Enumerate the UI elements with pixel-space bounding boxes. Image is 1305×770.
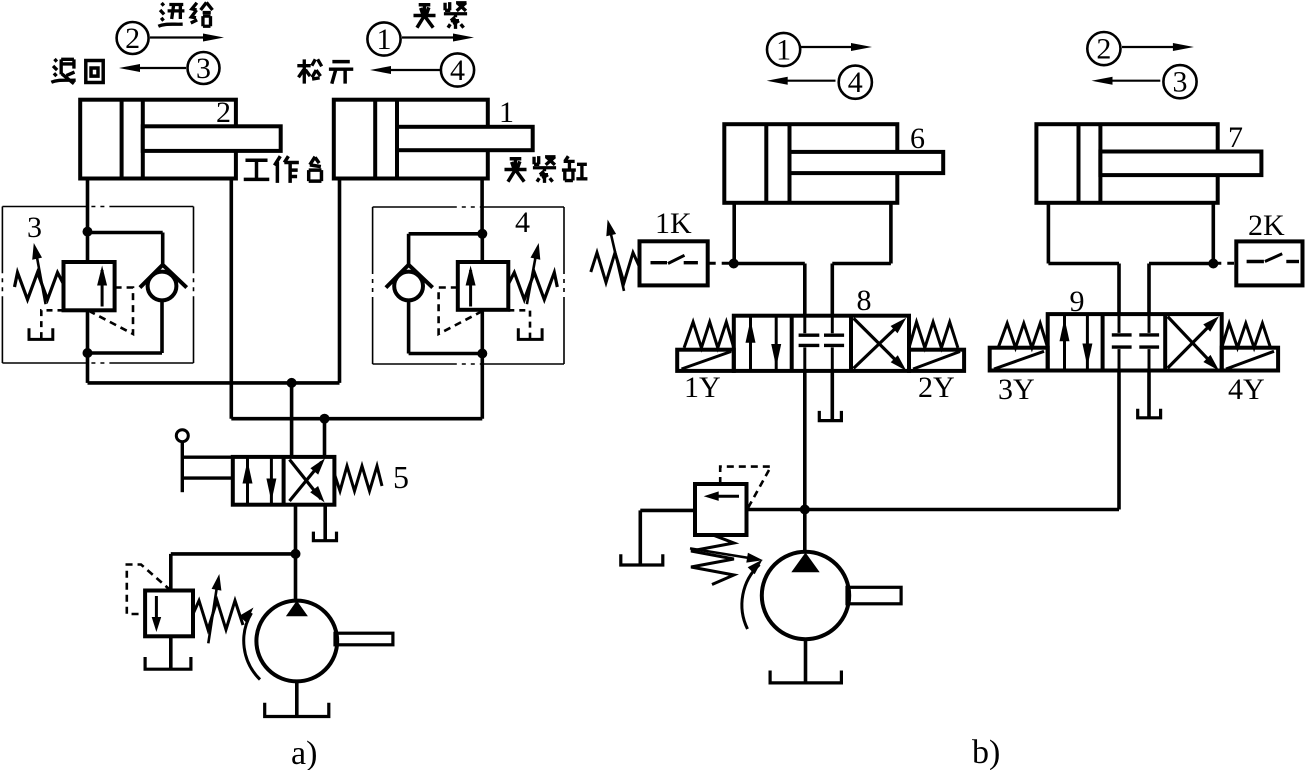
relief valve b spring <box>691 535 734 585</box>
pressure switch 2K link <box>1213 262 1234 265</box>
arrow 3b left <box>1104 80 1160 82</box>
enclosure box valve 4 <box>373 206 564 208</box>
valve 8 tank <box>819 411 841 421</box>
check valve 3 branch top <box>88 231 163 235</box>
pump b shaft <box>847 587 901 604</box>
wire seq4 bottom <box>480 310 484 354</box>
wire supply to valve 9 <box>805 508 1119 512</box>
svg-text:6: 6 <box>910 122 925 155</box>
step circle 3b <box>1163 65 1196 98</box>
svg-text:1: 1 <box>499 96 514 129</box>
arrow release left <box>383 69 441 71</box>
valve 9 left spring <box>998 323 1047 347</box>
svg-text:a): a) <box>291 735 317 770</box>
step circle 1b <box>767 33 800 66</box>
sequence valve 3 body <box>64 262 115 310</box>
junction <box>477 229 487 239</box>
valve 5 tank line <box>323 505 327 541</box>
relief valve b adjust arrow <box>690 548 753 558</box>
wire relief 1 branch <box>171 552 296 556</box>
svg-text:2: 2 <box>125 22 140 55</box>
arrow clamp right <box>402 36 461 38</box>
svg-text:3Y: 3Y <box>998 373 1035 406</box>
solenoid 4Y box <box>1222 348 1278 371</box>
step circle 3 <box>188 52 220 84</box>
solenoid 1Y box <box>677 350 734 371</box>
svg-text:2K: 2K <box>1248 209 1285 242</box>
wire cyl2 cap port down <box>86 179 90 232</box>
pressure switch 1K spring <box>591 253 640 283</box>
enclosure box valve 3 <box>2 206 193 208</box>
relief valve b outlet <box>640 509 695 513</box>
wire cyl7 cap <box>1047 203 1051 264</box>
relief valve b flow arrow <box>709 495 739 498</box>
label 夹紧 (clamp) <box>413 5 435 28</box>
pressure switch 1K adjust arrow <box>610 230 624 291</box>
pressure switch 1K contact <box>651 261 668 264</box>
check valve 4 branch bottom <box>407 300 411 353</box>
svg-text:3: 3 <box>196 52 211 85</box>
drain tank 4 <box>518 328 542 339</box>
svg-text:2: 2 <box>216 96 231 129</box>
svg-text:3: 3 <box>1173 66 1188 99</box>
wire net B to valve <box>323 419 327 457</box>
valve 9 left position arrows <box>1063 315 1066 370</box>
wire net A <box>86 353 90 383</box>
pressure switch 2K box <box>1236 241 1302 285</box>
label 退回 (retract) <box>51 59 75 84</box>
check valve 3 ball <box>148 272 177 301</box>
cylinder 7 <box>1036 124 1261 203</box>
step circle 2 <box>117 22 149 54</box>
junction 1K <box>729 259 739 269</box>
wire supply to relief b <box>747 508 805 512</box>
junction 2K <box>1208 259 1218 269</box>
pump b circle <box>762 552 849 639</box>
sequence valve 3 spring <box>15 273 64 300</box>
pump b tank line <box>804 639 808 683</box>
sequence valve 4 spring <box>508 273 557 300</box>
svg-text:4: 4 <box>848 66 863 99</box>
wire net A to valve <box>290 383 294 457</box>
sequence valve 4 body <box>458 262 509 310</box>
valve 5 spring <box>334 466 382 491</box>
wire valve 8 P <box>803 371 807 553</box>
valve 5 left position arrows <box>246 457 249 505</box>
junction supply <box>800 505 810 515</box>
pressure switch 1K link <box>708 262 731 265</box>
relief valve a tank line <box>169 636 173 669</box>
wire valve5 P to pump <box>294 505 298 601</box>
check valve 3 branch bottom <box>160 300 164 353</box>
step circle 1 <box>367 22 400 55</box>
label 进给 (feed) <box>158 3 184 26</box>
cylinder 2 (worktable cylinder) <box>80 100 281 179</box>
valve 9 tank line <box>1147 371 1151 418</box>
svg-text:2Y: 2Y <box>918 371 955 404</box>
svg-text:1K: 1K <box>655 207 692 240</box>
relief valve a adjust arrow <box>208 583 217 643</box>
drain tank 3 <box>29 328 53 339</box>
wire net B <box>230 179 234 419</box>
svg-text:1Y: 1Y <box>684 371 721 404</box>
junction <box>477 349 487 359</box>
wire cyl7 rod <box>1212 203 1216 264</box>
wire seq3 top <box>86 232 90 262</box>
junction <box>83 348 93 358</box>
arrow 2b right <box>1122 46 1181 48</box>
svg-text:9: 9 <box>1070 285 1085 318</box>
valve 5 body <box>233 457 335 505</box>
sequence valve 3 adjust arrow <box>36 252 46 304</box>
valve 9 tank <box>1138 409 1161 418</box>
valve 5 lever rod <box>181 442 184 493</box>
junction net A <box>287 378 297 388</box>
junction net B <box>320 414 330 424</box>
svg-text:1: 1 <box>776 34 791 67</box>
svg-text:3: 3 <box>27 211 42 244</box>
relief valve a body <box>145 591 193 637</box>
relief valve a flow arrow <box>155 596 158 626</box>
wire seq4 top <box>480 234 484 262</box>
wire cyl1 rod port down <box>480 179 484 234</box>
valve 9 center blocked ports <box>1118 314 1121 333</box>
valve 8 crossed arrows <box>854 322 903 369</box>
pump a tank <box>265 703 329 717</box>
sequence valve 4 adjust arrow <box>527 252 537 304</box>
pump a triangle <box>286 601 308 617</box>
relief valve b body <box>695 484 747 535</box>
wire cyl6 cap <box>732 203 736 264</box>
svg-text:4: 4 <box>515 206 530 239</box>
relief valve a pilot <box>127 565 171 615</box>
relief valve b pilot <box>720 467 771 508</box>
check valve 4 ball <box>394 272 423 301</box>
svg-text:8: 8 <box>857 284 872 317</box>
sequence valve 3 drain <box>41 310 63 334</box>
svg-text:4Y: 4Y <box>1228 373 1265 406</box>
wire seq3 bottom <box>86 310 90 353</box>
valve 5 tank <box>313 532 336 541</box>
valve 8 right spring <box>909 322 958 348</box>
svg-text:5: 5 <box>393 459 409 495</box>
relief valve b tank <box>621 554 663 565</box>
pump b triangle <box>791 553 819 573</box>
sequence valve 3 pilot <box>90 288 133 335</box>
valve 9 right spring <box>1222 323 1271 347</box>
label 工作台 (worktable) <box>244 160 270 179</box>
wire cyl6 rod <box>889 203 893 264</box>
svg-text:b): b) <box>972 734 1000 770</box>
pump a circle <box>256 601 337 682</box>
arrow feed right <box>150 36 211 38</box>
sequence valve 3 flow arrow <box>101 270 104 307</box>
arrow 1b right <box>801 46 859 48</box>
check valve 4 seat <box>386 265 433 288</box>
junction pump outlet <box>291 549 301 559</box>
step circle 2b <box>1087 32 1120 65</box>
svg-text:7: 7 <box>1228 121 1243 154</box>
relief valve a tank <box>145 657 191 669</box>
solenoid 3Y box <box>990 348 1048 371</box>
valve 5 lever links <box>182 456 233 459</box>
cylinder 1 (clamp cylinder) <box>334 100 533 179</box>
pump b tank <box>770 671 841 683</box>
cylinder 6 <box>724 124 943 203</box>
valve 8 center blocked ports <box>803 316 806 334</box>
pump a rotation arrow <box>244 613 260 680</box>
valve 8 left position arrows <box>749 317 752 371</box>
valve 8 body <box>734 316 909 371</box>
pressure switch 2K contact <box>1247 260 1264 263</box>
svg-text:2: 2 <box>1096 33 1111 66</box>
junction <box>83 227 93 237</box>
check valve 3 seat <box>140 265 187 288</box>
pump a tank line <box>295 681 299 716</box>
step circle 4b <box>839 66 872 99</box>
valve 8 left spring <box>684 322 734 348</box>
valve 5 crossed arrows <box>290 460 322 500</box>
svg-text:4: 4 <box>450 54 465 87</box>
label 松开 (release) <box>297 59 321 83</box>
pressure switch 1K box <box>640 241 708 285</box>
sequence valve 4 drain <box>508 310 530 334</box>
pump b rotation arrow <box>742 565 760 630</box>
solenoid 2Y box <box>909 350 964 371</box>
pump a shaft <box>335 633 393 645</box>
check valve 4 branch top <box>409 232 483 236</box>
svg-text:1: 1 <box>377 23 392 56</box>
label 夹紧缸 (clamp cylinder) <box>504 159 526 182</box>
relief valve a spring <box>193 601 243 630</box>
sequence valve 4 flow arrow <box>469 270 472 307</box>
valve 8 tank line <box>830 371 834 421</box>
step circle 4 <box>441 53 474 86</box>
sequence valve 4 pilot <box>439 288 482 335</box>
valve 9 crossed arrows <box>1168 320 1216 368</box>
valve 9 body <box>1048 314 1222 370</box>
arrow retract left <box>132 67 186 69</box>
valve 5 lever knob <box>176 430 188 442</box>
arrow 4b left <box>779 80 835 82</box>
